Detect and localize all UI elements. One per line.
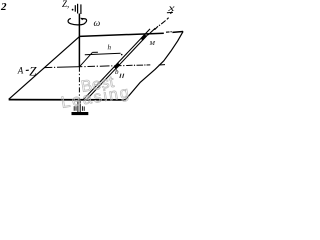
- h dimension line: [85, 53, 121, 55]
- x underline bar: [167, 11, 173, 13]
- axis Z vertical line (upper solid part): [78, 14, 80, 67]
- svg-text:A: A: [17, 66, 24, 76]
- slider arrowhead lower: [115, 64, 119, 68]
- ground base bar: [72, 112, 89, 115]
- svg-text:2: 2: [0, 1, 7, 13]
- rod line 1: [84, 29, 150, 99]
- label A dash: [26, 69, 29, 71]
- x axis dot: [159, 25, 160, 26]
- top edge gap dash: [166, 31, 170, 33]
- h leader horizontal tick: [92, 51, 98, 53]
- axis top hatching: [75, 4, 81, 14]
- bearing shaft double line below plate: [77, 100, 79, 113]
- svg-text:M: M: [149, 40, 156, 47]
- plate top edge: [80, 33, 164, 36]
- watermark Leasing: [60, 84, 132, 113]
- plate bottom edge: [9, 99, 126, 101]
- bearing hatches: [74, 106, 84, 111]
- svg-text:Z: Z: [29, 63, 37, 78]
- top edge gap dot: [170, 31, 171, 32]
- hatch dot: [72, 9, 74, 11]
- svg-text:h: h: [108, 44, 112, 52]
- watermark Best: [80, 73, 116, 96]
- horizontal dash-dot centerline: [44, 65, 150, 68]
- small double tick marks: [120, 74, 121, 78]
- svg-text:b: b: [115, 68, 119, 76]
- slider arrowhead at M: [142, 35, 146, 39]
- h line end dot: [121, 54, 123, 56]
- svg-text:ω: ω: [94, 19, 101, 29]
- rod extension above top edge: [148, 28, 155, 35]
- rotation arrow hook: [82, 19, 87, 23]
- x axis dash-dot continuation: [155, 12, 172, 30]
- rod line 2: [87, 34, 149, 99]
- centerline extra dash beyond right edge: [159, 64, 165, 66]
- plate left edge: [9, 36, 80, 99]
- svg-text:Z,: Z,: [62, 0, 69, 9]
- svg-text:x: x: [167, 3, 175, 13]
- plate right edge: [126, 31, 184, 99]
- h leader diagonal from axis junction: [80, 52, 92, 66]
- rotation arrow ellipse around axis: [68, 18, 87, 25]
- top edge right piece: [172, 31, 183, 34]
- axis Z dash-dot hidden part inside plate: [78, 67, 80, 100]
